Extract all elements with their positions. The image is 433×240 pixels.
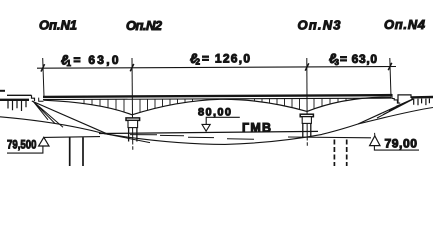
axis line Op2 below ground [132, 141, 134, 151]
right abutment front steps [392, 94, 400, 103]
left bank underwater slope [103, 133, 150, 142]
left abutment bearing shelf notch [39, 98, 44, 102]
left approach ground hatching [8, 101, 26, 111]
water stroke near pier 2 [130, 134, 157, 136]
bottom chord span 2 right [220, 99, 307, 111]
bottom chord span 2 left [132, 99, 220, 115]
pier Op2 bearing cap [126, 118, 140, 121]
elevation mark 80,00 leader [206, 117, 240, 124]
dimension tick at Op1 [41, 64, 45, 71]
pier Op2 bearing block [128, 120, 138, 127]
river bed line [104, 134, 322, 145]
benchmark 79,00 apex tick [374, 133, 376, 136]
axis line Op1 [43, 58, 44, 97]
svg-text:80,00: 80,00 [198, 107, 231, 119]
water stroke mid river 1 [160, 134, 184, 136]
right embankment cone edge [358, 99, 413, 124]
svg-text:= 63,0: = 63,0 [340, 52, 377, 66]
svg-text:79,500: 79,500 [7, 138, 37, 152]
right cone slope strokes [377, 99, 413, 118]
axis line Op3 [306, 58, 308, 137]
left abutment front face [32, 95, 35, 101]
web hatching span 1 [84, 99, 124, 112]
axis line Op3 below ground [306, 137, 308, 146]
water surface line GMV [99, 131, 318, 133]
left cone slope strokes [33, 101, 63, 127]
svg-text:Оп.N4: Оп.N4 [384, 17, 426, 32]
svg-text:3: 3 [335, 58, 340, 67]
web hatching span 2 right [255, 99, 300, 110]
left ground reference line [44, 136, 100, 139]
dimension line [37, 67, 396, 69]
axis line Op2 [131, 58, 134, 141]
right ground reference line [288, 136, 371, 139]
water stroke mid river 2 [188, 136, 214, 138]
dimension tick at Op4 [388, 63, 392, 70]
scan mark top left [0, 90, 5, 92]
svg-text:2: 2 [196, 58, 201, 67]
svg-text:Оп.N3: Оп.N3 [298, 17, 342, 32]
pier Op3 bearing cap [300, 114, 313, 117]
web hatching span 2 left [140, 99, 193, 112]
left embankment cone edge [32, 101, 106, 133]
deck top chord [43, 95, 392, 97]
foundation lines left [70, 137, 83, 166]
right approach roadbed line [411, 96, 433, 99]
benchmark 79,00 triangle [370, 136, 380, 146]
dimension tick at Op2 [130, 64, 134, 71]
right abutment block [398, 95, 411, 103]
elevation mark 80,00 triangle [202, 124, 210, 131]
left approach roadbed line [0, 99, 29, 101]
bottom chord span 1 [44, 100, 133, 115]
svg-text:ГМВ: ГМВ [242, 121, 271, 135]
left approach rail line [7, 94, 32, 96]
water stroke mid river 3 [227, 138, 254, 140]
deck bottom line [43, 98, 392, 100]
svg-text:Оп.N2: Оп.N2 [126, 18, 163, 33]
right approach ground hatching [414, 99, 430, 106]
dimension tick at Op3 [305, 63, 309, 70]
web hatching span 3 [314, 98, 354, 109]
svg-text:79,00: 79,00 [385, 137, 418, 151]
right bank ground line [322, 108, 433, 135]
svg-text:1: 1 [67, 59, 72, 68]
axis line Op4 [390, 58, 391, 97]
benchmark 79,500 stem and underline [7, 146, 43, 153]
benchmark 79,500 triangle [39, 137, 49, 146]
pier Op3 shaft [303, 123, 311, 137]
benchmark 79,00 stem and underline [374, 146, 419, 151]
svg-text:Оп.N1: Оп.N1 [39, 18, 77, 33]
foundation lines right dashed [333, 140, 335, 167]
bottom chord span 3 [307, 97, 391, 111]
left bank ground line [0, 117, 104, 134]
pier Op2 shaft [129, 128, 137, 142]
pier Op3 bearing block [302, 117, 311, 124]
